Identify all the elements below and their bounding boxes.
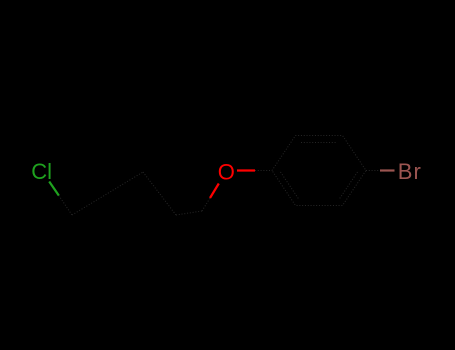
wire: bond Cl-C1 green half: [49, 182, 59, 196]
wire: bond Cl-C1 carbon half: [59, 196, 72, 216]
benzene ring U1 outline: [272, 136, 366, 206]
svg-text:Cl: Cl: [31, 159, 52, 184]
double bond inner line right-lower edge: [339, 172, 358, 200]
carbon skeleton (dark dithered strokes): [59, 136, 380, 216]
wire: bond C4-O carbon half: [202, 198, 210, 211]
wire: bond C4-O red half: [210, 184, 219, 199]
wire: chain bond C1-C2: [72, 172, 143, 215]
double bond inner line top edge: [301, 142, 337, 144]
wire: bond ring-Br carbon half: [366, 170, 380, 172]
wire: bond ring-Br brown half: [380, 169, 395, 171]
svg-text:O: O: [218, 160, 235, 185]
wire: bond O-ring carbon half: [255, 170, 272, 172]
svg-text:Br: Br: [398, 159, 422, 184]
double bond inner line left-lower edge: [281, 172, 300, 200]
wire: bond O-ring red half: [237, 169, 255, 171]
wire: chain bond C3-C4: [176, 211, 202, 215]
wire: chain bond C2-C3: [143, 172, 176, 215]
